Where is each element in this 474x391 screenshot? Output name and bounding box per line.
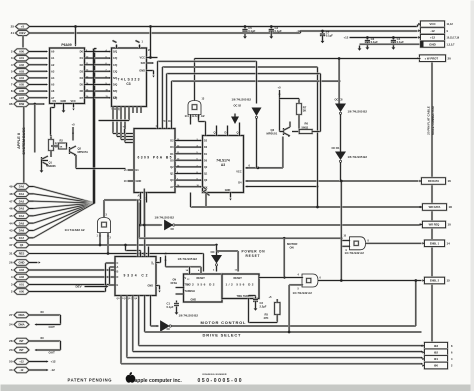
svg-text:GND: GND — [19, 261, 25, 265]
svg-text:20 PIN FLAT CABLE: 20 PIN FLAT CABLE — [427, 106, 431, 135]
svg-text:ENBL 2: ENBL 2 — [430, 279, 440, 283]
svg-text:D1: D1 — [80, 56, 84, 60]
svg-text:DMA: DMA — [18, 323, 24, 327]
svg-text:GND: GND — [191, 299, 197, 302]
svg-text:IN: IN — [41, 310, 44, 314]
svg-text:GND: GND — [139, 69, 145, 73]
svg-text:Q3: Q3 — [271, 128, 275, 132]
svg-text:A04: A04 — [19, 76, 24, 80]
svg-text:R2: R2 — [60, 139, 64, 143]
svg-text:1,3,5,7: 1,3,5,7 — [447, 42, 455, 46]
svg-text:1/6 74LS05 B2: 1/6 74LS05 B2 — [348, 110, 368, 114]
svg-text:16: 16 — [448, 179, 452, 183]
svg-text:6309 P6A B5: 6309 P6A B5 — [138, 156, 172, 160]
svg-text:INT: INT — [19, 348, 24, 352]
svg-text:DA4: DA4 — [19, 214, 25, 218]
svg-text:A: A — [117, 266, 119, 269]
svg-text:46: 46 — [9, 207, 13, 211]
svg-text:-12: -12 — [430, 29, 435, 33]
svg-text:A0: A0 — [51, 50, 55, 54]
svg-text:POWER ON: POWER ON — [242, 250, 266, 254]
svg-text:E1: E1 — [136, 168, 140, 172]
svg-text:45: 45 — [9, 214, 13, 218]
svg-text:R/W: R/W — [19, 102, 25, 106]
svg-text:DRAWING NUMBER: DRAWING NUMBER — [203, 373, 227, 376]
svg-text:DA1: DA1 — [19, 192, 25, 196]
svg-text:S/Q: S/Q — [113, 77, 117, 80]
svg-text:WR DATA: WR DATA — [429, 205, 441, 209]
svg-text:0.1µF: 0.1µF — [167, 305, 174, 309]
svg-text:3K: 3K — [303, 109, 307, 113]
svg-text:0.1µF: 0.1µF — [248, 29, 255, 33]
svg-text:CS: CS — [53, 100, 57, 103]
svg-text:A02: A02 — [19, 63, 24, 67]
svg-text:D6: D6 — [80, 89, 84, 93]
svg-text:+5: +5 — [164, 252, 168, 256]
svg-text:26: 26 — [9, 261, 13, 265]
svg-text:DRIVE SELECT: DRIVE SELECT — [203, 333, 242, 338]
svg-text:28: 28 — [9, 339, 13, 343]
svg-text:A03: A03 — [19, 268, 24, 272]
svg-text:37: 37 — [9, 243, 13, 247]
svg-text:A01: A01 — [19, 283, 24, 287]
svg-text:OC 02: OC 02 — [234, 104, 242, 108]
svg-text:1/6 74LS05 B2: 1/6 74LS05 B2 — [232, 98, 252, 102]
svg-text:MALE CONNECTOR: MALE CONNECTOR — [431, 105, 435, 134]
svg-text:A07: A07 — [19, 96, 24, 100]
svg-text:1K: 1K — [60, 147, 63, 149]
svg-text:DA7: DA7 — [19, 236, 25, 240]
svg-text:A06: A06 — [19, 89, 24, 93]
svg-text:10,15,17,19: 10,15,17,19 — [447, 37, 460, 40]
svg-text:OUT: OUT — [49, 325, 56, 329]
svg-text:1/6 74LS05 B2: 1/6 74LS05 B2 — [155, 216, 175, 220]
svg-text:VCC: VCC — [140, 55, 146, 59]
svg-text:A3: A3 — [221, 163, 225, 167]
svg-text:47: 47 — [9, 199, 13, 203]
svg-text:A1: A1 — [51, 56, 55, 60]
svg-text:OUT: OUT — [49, 351, 56, 355]
svg-text:0.1µF: 0.1µF — [275, 29, 282, 33]
svg-text:MPSU51: MPSU51 — [267, 132, 278, 136]
svg-text:C2: C2 — [260, 301, 264, 305]
svg-text:A01: A01 — [19, 56, 24, 60]
svg-text:1/4 74LS32 A2: 1/4 74LS32 A2 — [293, 291, 313, 295]
svg-text:Q2: Q2 — [78, 147, 82, 151]
svg-text:+12: +12 — [51, 360, 56, 364]
svg-text:OC: OC — [171, 228, 175, 231]
svg-text:D/Q: D/Q — [113, 84, 117, 87]
svg-text:+12: +12 — [344, 36, 349, 40]
svg-text:Φ2: Φ2 — [434, 351, 438, 355]
svg-text:B: B — [117, 271, 119, 274]
svg-text:11,12: 11,12 — [447, 22, 454, 26]
svg-text:D: D — [117, 276, 119, 279]
svg-text:+5: +5 — [278, 86, 282, 90]
svg-text:Q3: Q3 — [20, 243, 24, 247]
svg-text:GND: GND — [147, 285, 153, 288]
svg-text:C1: C1 — [167, 302, 171, 306]
svg-text:RD DATA: RD DATA — [428, 179, 439, 183]
svg-text:CP: CP — [113, 96, 117, 100]
svg-text:A6: A6 — [51, 89, 55, 93]
svg-text:MPSU51: MPSU51 — [78, 150, 89, 154]
svg-text:Q1: Q1 — [49, 161, 53, 165]
svg-text:WR REQ: WR REQ — [429, 223, 440, 227]
svg-text:ENBL 1: ENBL 1 — [430, 242, 440, 246]
svg-text:DA5: DA5 — [19, 221, 25, 225]
svg-text:+5: +5 — [123, 125, 127, 129]
svg-text:C/Q: C/Q — [113, 64, 117, 67]
svg-text:18: 18 — [449, 205, 453, 209]
svg-text:D5: D5 — [80, 83, 84, 87]
svg-text:OC: OC — [167, 328, 171, 331]
svg-text:GND: GND — [136, 179, 142, 183]
svg-text:VCC: VCC — [236, 171, 241, 174]
svg-text:GND: GND — [61, 100, 67, 103]
svg-text:D3: D3 — [80, 69, 84, 73]
svg-text:C/Q: C/Q — [113, 70, 117, 73]
svg-text:41: 41 — [11, 31, 15, 35]
svg-text:+5: +5 — [21, 25, 25, 29]
svg-text:MOTOR CONTROL: MOTOR CONTROL — [201, 320, 247, 325]
svg-text:GND: GND — [429, 42, 437, 46]
svg-text:A3: A3 — [51, 69, 55, 73]
svg-text:Φ1: Φ1 — [434, 357, 438, 361]
svg-text:24: 24 — [9, 323, 13, 327]
svg-text:Φ3: Φ3 — [434, 344, 438, 348]
svg-text:GND: GND — [225, 189, 231, 192]
svg-text:42: 42 — [9, 236, 13, 240]
svg-text:1/6 74LS05 B2: 1/6 74LS05 B2 — [179, 314, 199, 318]
svg-text:C3: C3 — [126, 82, 130, 86]
svg-text:W PROT: W PROT — [427, 56, 438, 60]
svg-text:50: 50 — [9, 360, 13, 364]
svg-text:DA6: DA6 — [19, 229, 25, 233]
svg-text:RESET: RESET — [234, 277, 243, 280]
svg-text:47K: 47K — [264, 316, 269, 320]
svg-text:48: 48 — [9, 192, 13, 196]
svg-text:D2: D2 — [80, 63, 84, 67]
svg-text:RESET: RESET — [197, 277, 206, 280]
svg-text:74LS174: 74LS174 — [216, 159, 230, 163]
svg-text:Φ0: Φ0 — [434, 364, 438, 368]
svg-text:10: 10 — [448, 223, 452, 227]
svg-text:-12: -12 — [51, 368, 56, 372]
svg-text:C/Q: C/Q — [113, 57, 117, 60]
svg-text:15: 15 — [447, 279, 451, 283]
svg-text:96: 96 — [9, 102, 13, 106]
svg-text:INT: INT — [19, 339, 24, 343]
svg-text:S/R: S/R — [141, 61, 145, 65]
svg-text:IN: IN — [41, 336, 44, 340]
svg-text:R5: R5 — [265, 313, 269, 317]
svg-text:DEV: DEV — [19, 31, 25, 35]
svg-text:A02: A02 — [19, 275, 24, 279]
svg-text:C: C — [117, 262, 119, 265]
svg-text:23: 23 — [9, 348, 13, 352]
svg-text:P6A09: P6A09 — [61, 43, 71, 47]
svg-text:0.1µF: 0.1µF — [326, 34, 333, 38]
svg-text:PATENT PENDING: PATENT PENDING — [68, 378, 112, 383]
svg-text:RESET: RESET — [246, 254, 260, 258]
svg-text:B/Q: B/Q — [113, 90, 117, 93]
svg-text:1/6 74LS05 B2: 1/6 74LS05 B2 — [178, 257, 198, 261]
svg-text:TRIG: TRIG — [185, 284, 191, 287]
svg-text:A5: A5 — [51, 83, 55, 87]
svg-text:49: 49 — [9, 185, 13, 189]
svg-text:1/4 74LS32 A2: 1/4 74LS32 A2 — [65, 228, 85, 232]
svg-text:DMA: DMA — [18, 313, 24, 317]
svg-text:APPLE II: APPLE II — [17, 133, 21, 149]
svg-text:+12: +12 — [19, 360, 24, 364]
svg-text:1/4 74LS32 A2: 1/4 74LS32 A2 — [185, 114, 205, 118]
svg-text:A00: A00 — [19, 290, 24, 294]
svg-text:DA2: DA2 — [19, 199, 25, 203]
svg-text:43: 43 — [9, 229, 13, 233]
svg-text:RES: RES — [19, 252, 25, 256]
svg-text:050-0005-00: 050-0005-00 — [198, 378, 242, 384]
svg-text:A2: A2 — [51, 63, 55, 67]
svg-text:20: 20 — [448, 56, 452, 60]
svg-text:SYSTEM BUSS: SYSTEM BUSS — [22, 127, 26, 155]
svg-text:-12: -12 — [296, 29, 300, 33]
svg-text:D7: D7 — [80, 96, 84, 100]
svg-text:D0: D0 — [80, 50, 84, 54]
svg-text:14: 14 — [447, 242, 451, 246]
svg-text:S/Q: S/Q — [113, 51, 117, 54]
svg-text:27: 27 — [9, 313, 13, 317]
svg-text:25: 25 — [11, 25, 15, 29]
svg-text:THRESH: THRESH — [185, 290, 195, 293]
svg-text:31: 31 — [9, 252, 13, 256]
svg-text:2.2µF: 2.2µF — [260, 305, 267, 309]
svg-text:A03: A03 — [19, 69, 24, 73]
svg-text:+5: +5 — [72, 123, 76, 127]
svg-text:OFFΔ: OFFΔ — [171, 282, 178, 285]
svg-text:apple computer inc.: apple computer inc. — [135, 378, 183, 384]
svg-text:VCC: VCC — [429, 22, 436, 26]
svg-text:560Ω: 560Ω — [302, 125, 309, 129]
svg-text:+12: +12 — [430, 36, 435, 40]
svg-text:DEV: DEV — [76, 285, 82, 289]
svg-text:2N3906: 2N3906 — [47, 164, 57, 168]
svg-text:44: 44 — [9, 221, 13, 225]
svg-text:R6: R6 — [305, 122, 309, 126]
svg-text:A00: A00 — [19, 50, 24, 54]
svg-text:D4: D4 — [80, 76, 84, 80]
svg-text:1/6 74LS05 B2: 1/6 74LS05 B2 — [348, 155, 368, 159]
svg-text:33: 33 — [9, 368, 13, 372]
svg-text:A4: A4 — [51, 76, 55, 80]
svg-text:ON: ON — [290, 246, 294, 250]
svg-text:DA0: DA0 — [19, 185, 25, 189]
svg-text:DA3: DA3 — [19, 207, 25, 211]
svg-text:1/4 74LS32 A2: 1/4 74LS32 A2 — [345, 251, 365, 255]
svg-text:A05: A05 — [19, 83, 24, 87]
svg-text:VCC: VCC — [71, 100, 76, 103]
svg-text:-12: -12 — [20, 368, 24, 372]
